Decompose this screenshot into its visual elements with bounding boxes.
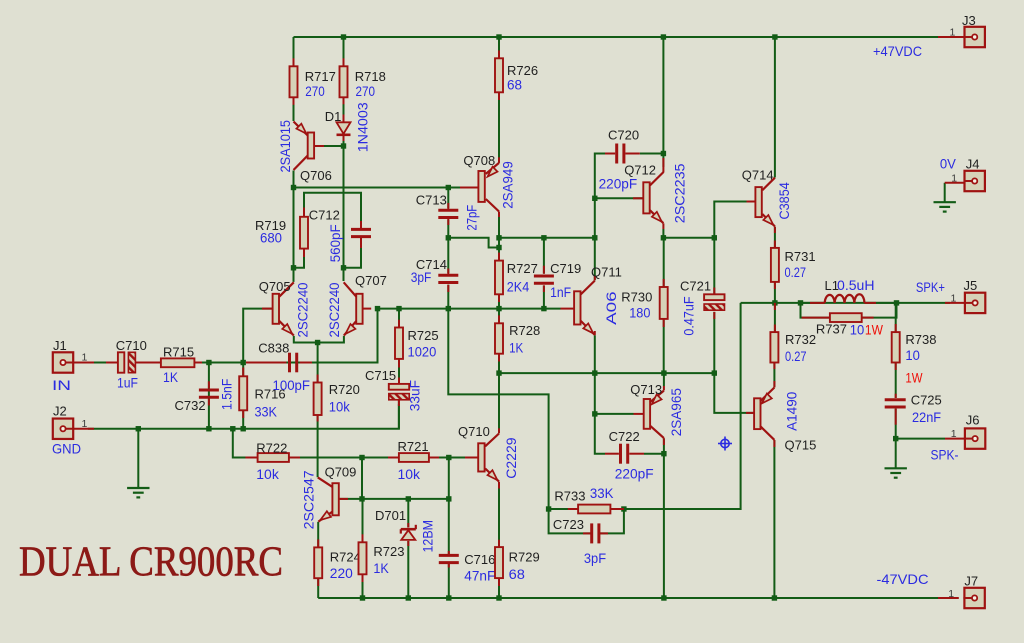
wire R719/C712 top link	[304, 193, 361, 221]
svg-text:220: 220	[330, 565, 353, 581]
junction Q711 emitter	[592, 370, 597, 375]
svg-text:0V: 0V	[940, 156, 957, 172]
wire J1 input to R715	[88, 362, 118, 364]
transistor Q705	[273, 294, 279, 324]
svg-text:1K: 1K	[163, 369, 179, 385]
wire Q708 collector to vas node	[498, 212, 500, 238]
wire R718 to D1	[343, 97, 345, 122]
svg-text:C725: C725	[911, 393, 942, 408]
wire C713 column	[447, 188, 449, 209]
svg-text:J6: J6	[966, 413, 980, 428]
transistor Q711	[574, 291, 580, 324]
junction R723 top	[359, 496, 364, 501]
resistor R718	[340, 66, 348, 97]
resistor R721	[399, 453, 429, 462]
junction C713 top	[446, 185, 451, 190]
connector J4	[965, 171, 985, 191]
wire Q710 collector column	[498, 373, 500, 433]
junction C719 top	[541, 235, 546, 240]
svg-text:J4: J4	[966, 157, 980, 172]
diode D1	[337, 122, 351, 134]
junction rail C716	[446, 595, 451, 600]
svg-text:1: 1	[951, 172, 957, 184]
transistor Q713	[644, 399, 650, 429]
svg-text:C719: C719	[550, 261, 581, 276]
resistor R722	[258, 453, 289, 462]
svg-text:Q711: Q711	[591, 264, 622, 279]
svg-text:C721: C721	[680, 279, 711, 294]
svg-text:R727: R727	[507, 261, 538, 276]
svg-text:68: 68	[509, 566, 526, 582]
svg-text:1.5nF: 1.5nF	[219, 379, 235, 410]
wire R721 to Q710 base	[429, 457, 478, 459]
wire C723 right hook	[599, 509, 624, 533]
junction rail Q714	[772, 34, 777, 39]
wire output node line	[741, 302, 950, 304]
wire vas bus left segment	[448, 238, 499, 248]
svg-text:0.27: 0.27	[785, 264, 807, 280]
svg-text:R731: R731	[785, 249, 816, 264]
svg-text:C713: C713	[416, 193, 447, 208]
svg-text:R730: R730	[621, 289, 652, 304]
wire C732 column	[208, 363, 210, 429]
svg-text:C2229: C2229	[503, 437, 519, 479]
wire R738 top	[895, 303, 897, 332]
svg-text:2SA965: 2SA965	[668, 388, 684, 436]
wire R727 to base bus	[498, 294, 500, 308]
svg-text:SPK-: SPK-	[931, 446, 959, 462]
svg-text:R733: R733	[554, 489, 585, 504]
resistor R717	[290, 66, 298, 97]
svg-text:R729: R729	[509, 549, 540, 564]
wire R722 to R721 bias line	[289, 457, 399, 459]
resistor R730	[660, 287, 668, 319]
wire R726 to Q708 emitter	[498, 92, 500, 163]
junction input node	[241, 360, 246, 365]
wire R738 to C725	[895, 363, 897, 399]
svg-text:R737: R737	[816, 322, 847, 337]
wire Q705 base	[243, 309, 272, 363]
wire R729 bottom	[498, 578, 500, 598]
transistor Q710	[478, 443, 484, 471]
wire Q712 base	[595, 197, 643, 199]
svg-text:1K: 1K	[509, 340, 524, 356]
svg-text:DUAL CR900RC: DUAL CR900RC	[19, 539, 283, 586]
junction rail R718	[341, 34, 346, 39]
junction C722 right	[661, 451, 666, 456]
wire C723 branch	[549, 509, 592, 533]
junction vas end	[592, 235, 597, 240]
wire R723 column	[362, 499, 364, 542]
svg-text:10k: 10k	[398, 466, 421, 482]
svg-text:100pF: 100pF	[273, 377, 311, 393]
junction R716 bottom	[241, 426, 246, 431]
wire R727 top lead	[498, 248, 500, 261]
wire R728 bottom to y373 line	[498, 354, 500, 373]
wire Q714 base link	[714, 202, 755, 238]
svg-text:2SA949: 2SA949	[499, 161, 515, 209]
svg-text:33K: 33K	[590, 485, 614, 501]
svg-text:J2: J2	[53, 403, 67, 418]
capacitor C732	[199, 389, 219, 392]
wire L1 leads	[801, 302, 825, 304]
resistor R729	[495, 547, 503, 578]
junction R727 R728	[496, 306, 501, 311]
wire vas bus jog vertical	[499, 238, 595, 248]
wire Q715 base link	[714, 373, 754, 413]
svg-text:1W: 1W	[865, 322, 884, 338]
svg-text:IN: IN	[52, 377, 71, 393]
svg-text:J3: J3	[962, 13, 976, 28]
svg-text:1: 1	[951, 293, 957, 305]
svg-text:1020: 1020	[408, 343, 437, 359]
svg-text:10: 10	[905, 347, 920, 363]
wire Q709 emitter to R724	[317, 522, 319, 548]
svg-text:D1: D1	[325, 109, 342, 124]
junction rail Q713	[661, 595, 666, 600]
svg-text:J7: J7	[964, 573, 978, 588]
resistor R724	[314, 547, 322, 578]
transistor Q706	[308, 133, 314, 159]
svg-text:D701: D701	[375, 508, 406, 523]
wire R723 bottom	[362, 574, 364, 598]
svg-text:C720: C720	[608, 128, 639, 143]
wire C720 right to +47 column	[640, 153, 664, 155]
wire C719 column	[543, 238, 545, 274]
ground speaker return	[885, 468, 907, 477]
wire R730 bottom	[663, 319, 665, 373]
junction C719 bottom	[541, 306, 546, 311]
resistor R727	[495, 261, 503, 295]
svg-text:12BM: 12BM	[420, 520, 436, 553]
wire red pin stubs	[74, 37, 965, 598]
wire R730 top	[663, 238, 665, 287]
wire R715 output node	[194, 362, 243, 364]
junction Q713 emitter	[661, 370, 666, 375]
wire C725 to J6 node	[895, 409, 897, 439]
capacitor C719	[534, 275, 554, 278]
junction R733 right	[621, 506, 626, 511]
resistor R720	[314, 383, 322, 416]
wire Q714 collector to rail	[774, 37, 776, 178]
connector J2	[53, 419, 73, 439]
wire D701 column	[407, 499, 409, 528]
junction R722 drop	[230, 426, 235, 431]
wire lower bias line y373	[499, 372, 714, 374]
svg-text:22nF: 22nF	[912, 409, 941, 425]
svg-text:220pF: 220pF	[615, 465, 654, 481]
wire R737 right hook	[862, 303, 897, 318]
connector J3	[965, 27, 985, 47]
wire C716 column top	[448, 499, 450, 554]
transistor Q714	[755, 187, 761, 217]
junction Q714 base tee	[712, 235, 717, 240]
junction L1 left	[798, 300, 803, 305]
capacitor C716	[439, 554, 459, 557]
ground 0V	[934, 202, 956, 211]
wire GND line	[88, 404, 399, 429]
svg-text:10k: 10k	[329, 398, 351, 414]
junction Q706 collector node	[291, 185, 296, 190]
svg-text:R723: R723	[373, 544, 404, 559]
wire R732 to Q715 emitter	[773, 363, 775, 388]
wire Q712 emitter to vas bus right	[662, 229, 664, 238]
junction Q713 base tee	[592, 411, 597, 416]
wire Q710 emitter to R729	[498, 482, 500, 547]
wire -47V bottom rail	[318, 597, 948, 599]
junction emitter bus	[315, 340, 320, 345]
connector J1	[53, 352, 73, 372]
junction C732 bottom	[206, 426, 211, 431]
svg-text:C710: C710	[116, 338, 147, 353]
junction C714 bottom	[446, 306, 451, 311]
wire R719 bottom hook	[294, 257, 305, 268]
transistor Q708	[478, 171, 484, 202]
wire C722 right	[644, 453, 664, 455]
resistor R725	[395, 328, 403, 359]
svg-text:2SC2240: 2SC2240	[326, 282, 342, 337]
connector J5	[965, 293, 985, 313]
junction L1 right	[894, 300, 899, 305]
svg-text:47nF: 47nF	[464, 568, 495, 584]
svg-text:Q708: Q708	[463, 153, 495, 168]
wire R725 column	[398, 309, 400, 328]
junction rail Q712	[661, 34, 666, 39]
svg-text:A1490: A1490	[783, 391, 799, 430]
svg-text:27pF: 27pF	[464, 205, 480, 231]
wire R733 left	[549, 508, 579, 510]
capacitor C720	[615, 144, 618, 164]
resistor R732	[770, 332, 778, 362]
svg-text:C723: C723	[553, 517, 584, 532]
svg-text:1: 1	[951, 428, 957, 440]
junction output R731	[772, 300, 777, 305]
wire R724 bottom to rail	[317, 578, 319, 598]
svg-text:+47VDC: +47VDC	[873, 43, 922, 59]
junction gnd stem	[136, 426, 141, 431]
transistor Q709	[332, 483, 338, 515]
capacitor C713	[438, 209, 458, 212]
svg-text:33uF: 33uF	[407, 380, 423, 411]
wire Q711 collector up / Q712 base column	[595, 154, 605, 281]
wire R731 to output	[774, 282, 776, 303]
wire gnd stem J6	[895, 439, 897, 469]
svg-text:560pF: 560pF	[327, 224, 343, 262]
wire Q705 Q707 emitter bus	[294, 336, 344, 343]
junction J6 node	[893, 436, 898, 441]
svg-text:68: 68	[507, 77, 522, 93]
wire C712 bottom hook	[344, 248, 362, 268]
wire J6 line	[896, 438, 945, 440]
wire emitter bus to R720	[317, 343, 319, 383]
svg-text:0.5uH: 0.5uH	[837, 277, 875, 293]
capacitor C721	[704, 294, 724, 300]
junction D1 Q706 base	[341, 143, 346, 148]
svg-text:680: 680	[260, 230, 282, 246]
svg-text:2K4: 2K4	[507, 278, 530, 294]
resistor R731	[771, 248, 779, 282]
capacitor C838	[288, 353, 291, 373]
wire output to R732	[774, 303, 776, 332]
wire J4 to ground	[944, 183, 946, 202]
svg-text:A06: A06	[603, 291, 619, 325]
svg-text:2SC2240: 2SC2240	[295, 282, 311, 337]
wire C713 to C714	[447, 220, 449, 273]
junction R725 top	[396, 306, 401, 311]
wire Q710-base drop to C716 node	[448, 458, 450, 499]
junction Q707 base	[375, 306, 380, 311]
svg-text:1: 1	[948, 588, 954, 600]
svg-text:C722: C722	[609, 429, 640, 444]
capacitor C725	[885, 398, 906, 401]
resistor R719	[300, 217, 308, 249]
svg-text:C716: C716	[464, 552, 495, 567]
wire bias line drop to Q709 base node	[361, 458, 363, 499]
wire feedback drop from base bus	[448, 309, 568, 509]
wire R720 to Q709 collector	[317, 415, 319, 477]
junction rail R726	[496, 34, 501, 39]
wire Q713 base drop	[595, 414, 605, 454]
wire R717 to Q706 emitter	[293, 97, 295, 121]
transistor Q707	[356, 294, 362, 324]
wire R726 column	[498, 37, 500, 58]
junction rail R723	[360, 595, 365, 600]
svg-text:1: 1	[950, 27, 956, 39]
svg-text:C838: C838	[258, 341, 289, 356]
svg-text:1: 1	[82, 352, 88, 364]
wire D701 to rail	[407, 541, 409, 598]
svg-text:180: 180	[629, 305, 650, 321]
wire R716 column	[242, 363, 244, 429]
zener diode D701	[401, 530, 415, 540]
junction C712 bottom	[341, 265, 346, 270]
capacitor C714	[438, 274, 458, 277]
svg-text:10: 10	[850, 322, 865, 338]
capacitor C715	[389, 384, 409, 390]
capacitor C712	[351, 228, 371, 231]
svg-text:0.47uF: 0.47uF	[681, 296, 697, 335]
svg-text:1K: 1K	[373, 560, 389, 576]
svg-text:R722: R722	[256, 440, 287, 455]
svg-text:1: 1	[82, 418, 88, 430]
wire Q713 emitter up	[663, 373, 665, 386]
svg-text:2SC2547: 2SC2547	[301, 470, 317, 529]
junction R719 bottom	[291, 265, 296, 270]
wire Q707 base node bus	[378, 308, 561, 310]
resistor R733	[578, 505, 610, 514]
junction Q712 emitter	[661, 235, 666, 240]
svg-text:2SC2235: 2SC2235	[672, 163, 688, 223]
transistor Q712	[643, 182, 649, 213]
ground input	[127, 488, 149, 497]
junction C732 top	[206, 360, 211, 365]
wire C721 column top	[713, 238, 715, 294]
svg-text:J5: J5	[964, 278, 978, 293]
junction rail D701	[406, 595, 411, 600]
wire feedback from output	[624, 303, 741, 509]
inductor L1	[825, 294, 865, 303]
no-ERC marker	[718, 437, 732, 451]
svg-text:Q715: Q715	[785, 437, 817, 452]
svg-text:2SA1015: 2SA1015	[277, 120, 293, 173]
wire C715 bottom	[398, 400, 400, 429]
wire Q711 emitter down	[594, 335, 596, 414]
wire Q714 emitter to R731	[774, 227, 776, 248]
wire C838 to Q707 base link	[246, 309, 378, 363]
resistor R716	[239, 376, 247, 410]
svg-text:R721: R721	[398, 439, 429, 454]
svg-text:R728: R728	[509, 323, 540, 338]
svg-text:Q706: Q706	[300, 168, 332, 183]
wire Q715 collector to rail	[773, 440, 775, 598]
wire Q706 collector to Q708 base	[294, 187, 478, 189]
wire +47 down to Q712 collector	[662, 37, 664, 167]
wire D1 to Q706 base node	[343, 136, 345, 146]
junction Q712 base	[592, 196, 597, 201]
svg-text:1N4003: 1N4003	[355, 102, 371, 152]
junction R728 bottom	[496, 370, 501, 375]
svg-text:Q705: Q705	[259, 279, 291, 294]
svg-text:1nF: 1nF	[550, 284, 571, 300]
resistor R737	[830, 313, 862, 322]
junction R733 left	[546, 506, 551, 511]
svg-text:R738: R738	[905, 332, 936, 347]
svg-text:C712: C712	[309, 207, 340, 222]
connector J7	[964, 588, 984, 608]
transistor Q715	[754, 398, 760, 429]
junction vas C713	[446, 235, 451, 240]
wire R737 parallel branch	[801, 303, 830, 318]
svg-text:GND: GND	[52, 441, 81, 457]
wire C719 bottom	[543, 285, 545, 308]
svg-text:R732: R732	[785, 332, 816, 347]
svg-text:R725: R725	[408, 328, 439, 343]
svg-text:220pF: 220pF	[599, 175, 638, 191]
junction D701 top	[406, 496, 411, 501]
capacitor C710	[118, 352, 124, 372]
svg-text:R724: R724	[330, 549, 361, 564]
svg-text:10k: 10k	[256, 466, 279, 482]
svg-text:3pF: 3pF	[411, 269, 432, 285]
resistor R738	[892, 332, 900, 362]
svg-text:Q713: Q713	[630, 382, 662, 397]
junction C716 top	[446, 496, 451, 501]
wire R733 right	[610, 508, 624, 510]
svg-text:0.27: 0.27	[785, 348, 807, 364]
wire R718 column	[343, 37, 345, 66]
svg-text:Q709: Q709	[325, 465, 357, 480]
svg-text:270: 270	[305, 83, 325, 99]
svg-text:Q712: Q712	[624, 163, 656, 178]
wire R717 column	[293, 37, 295, 66]
junction C720 right	[661, 151, 666, 156]
junction rail R729	[496, 595, 501, 600]
junction bias line	[359, 455, 364, 460]
svg-text:SPK+: SPK+	[916, 279, 945, 295]
resistor R715	[161, 358, 195, 367]
svg-text:C732: C732	[175, 398, 206, 413]
svg-text:R720: R720	[329, 382, 360, 397]
wire Q707 collector column	[343, 146, 345, 281]
junction R727 tap	[496, 245, 501, 250]
wire C716 bottom	[448, 564, 450, 598]
resistor R726	[495, 58, 503, 92]
resistor R728	[495, 323, 503, 353]
junction rail Q715	[772, 595, 777, 600]
svg-text:1uF: 1uF	[117, 375, 138, 391]
svg-text:3pF: 3pF	[584, 550, 606, 566]
wire gnd stem J2	[137, 429, 139, 488]
